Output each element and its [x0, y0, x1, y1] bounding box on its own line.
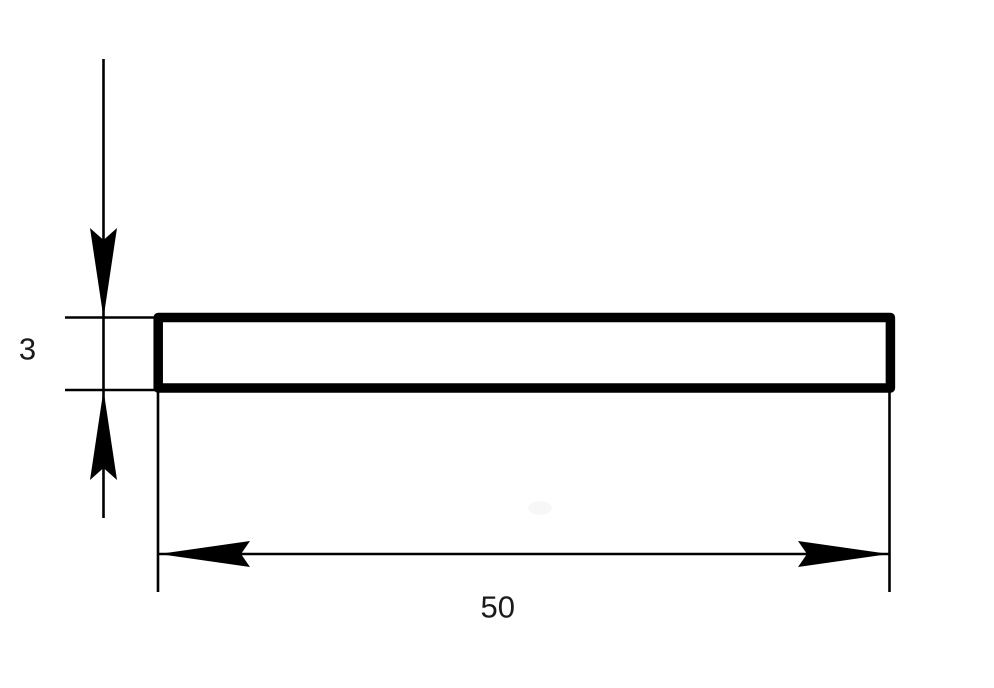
extension line: left side (down): [157, 391, 160, 592]
svg-text:3: 3: [19, 332, 36, 367]
profile outline: 50x3 flat bar cross-section: [158, 318, 890, 389]
arrowhead: left: [159, 541, 250, 567]
arrowhead: up toward bottom edge: [90, 390, 117, 480]
dimension line: vertical (thickness 3): [102, 59, 105, 518]
dimension line: horizontal (width 50): [159, 553, 889, 556]
extension line: bottom edge (left): [65, 389, 160, 392]
faint smudge artifact: [528, 501, 552, 515]
arrowhead: right: [798, 541, 889, 567]
extension line: right side (down): [888, 391, 891, 592]
arrowhead: down toward top edge: [90, 228, 117, 318]
extension line: top edge (left): [65, 316, 158, 319]
svg-text:50: 50: [480, 590, 514, 625]
